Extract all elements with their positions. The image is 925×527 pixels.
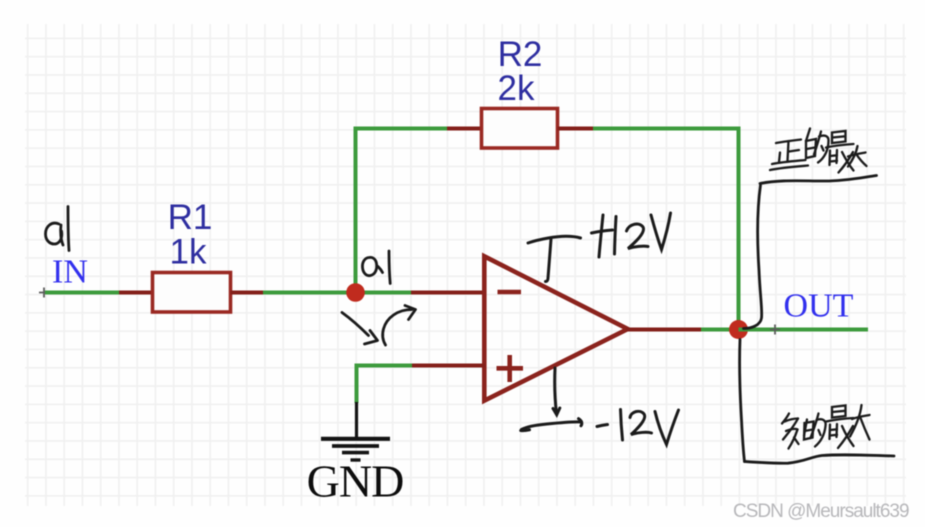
- wire output green left: [701, 328, 739, 332]
- annotation a| input mark: [46, 207, 70, 251]
- svg-text:1k: 1k: [170, 233, 207, 272]
- wire output red: [626, 328, 701, 332]
- wire inverting input lead: [411, 291, 485, 295]
- annotation -12V supply mark: [521, 368, 582, 431]
- resistor R1: [153, 273, 231, 313]
- svg-text:IN: IN: [52, 254, 88, 291]
- wire non-inverting green horizontal: [355, 364, 413, 368]
- ground lead: [355, 402, 358, 438]
- wire ground vertical green: [355, 364, 359, 404]
- pin marker OUT: [770, 325, 780, 335]
- annotation node voltage 0.1: [362, 251, 390, 284]
- annotation positive max text (zheng de zui da): [770, 129, 867, 173]
- annotation arrow curved: [383, 306, 416, 346]
- svg-text:CSDN @Meursault639: CSDN @Meursault639: [733, 501, 909, 522]
- junction node OUT dot: [729, 320, 748, 339]
- annotation +12V text: [592, 213, 671, 257]
- wire feedback top left: [354, 127, 448, 131]
- annotation bracket positive max: [744, 176, 877, 329]
- svg-text:OUT: OUT: [784, 288, 854, 325]
- resistor R2: [482, 109, 558, 149]
- wire R2 left lead: [447, 127, 482, 131]
- wire OUT: [739, 328, 869, 332]
- annotation arrow bent: [342, 313, 378, 345]
- ground symbol: [321, 439, 390, 460]
- wire node A vertical: [354, 127, 358, 293]
- pin marker IN: [39, 288, 49, 298]
- svg-text:GND: GND: [307, 456, 404, 507]
- wire non-inverting red lead: [412, 364, 485, 368]
- wire feedback top right: [593, 127, 741, 131]
- op-amp U1: [484, 256, 627, 400]
- wire node A horizontal: [263, 291, 411, 295]
- annotation +12V supply mark: [528, 236, 581, 281]
- wire IN: [45, 291, 119, 295]
- annotation -12V text: [597, 410, 679, 445]
- wire feedback right vertical: [737, 127, 741, 330]
- svg-text:R1: R1: [168, 198, 213, 237]
- op-amp inverting input symbol: [498, 290, 522, 295]
- wire R2 right lead: [558, 127, 594, 131]
- op-amp non-inverting input symbol: [497, 355, 524, 382]
- annotation negative max text (fu de zui da): [782, 405, 870, 449]
- svg-text:2k: 2k: [498, 69, 535, 108]
- wire R1 right lead: [231, 291, 264, 295]
- wire R1 left lead: [119, 291, 153, 295]
- annotation bracket negative max: [740, 340, 894, 464]
- junction node A dot: [346, 283, 365, 302]
